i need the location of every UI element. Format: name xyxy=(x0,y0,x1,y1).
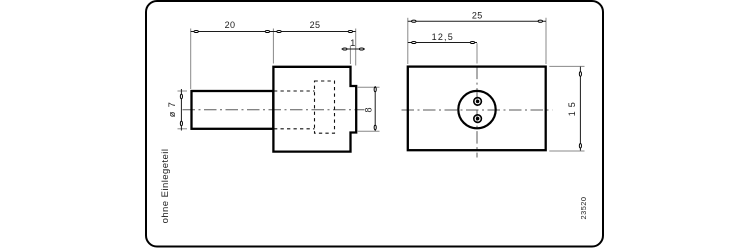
extension line left of dim 1 xyxy=(349,46,351,65)
extension line between dims 20 and 25 xyxy=(272,29,274,64)
hole top ring xyxy=(474,98,482,106)
dimension line 20/25 xyxy=(191,31,356,33)
tick dia7 top xyxy=(180,94,182,98)
dimension line 25 front view xyxy=(408,20,546,22)
dimension line dia7 xyxy=(180,89,182,131)
extension tick dia7 bottom xyxy=(178,128,188,130)
svg-text:8: 8 xyxy=(363,107,373,112)
shaft outline side view xyxy=(192,91,274,129)
extension line left of dim 20 xyxy=(190,29,192,90)
centerline side view xyxy=(183,109,365,111)
bore circle front view xyxy=(458,91,495,128)
extension line dim 12,5 down xyxy=(476,43,478,63)
extension line right front view xyxy=(545,18,547,64)
svg-text:20: 20 xyxy=(225,20,236,30)
tick dim 25 front left xyxy=(412,20,416,22)
tick dim 25 front right xyxy=(538,20,542,22)
extension line dim 15 bottom xyxy=(549,150,584,152)
hole bottom center dot xyxy=(476,117,480,121)
hole top center dot xyxy=(476,100,480,104)
hidden line bore top xyxy=(274,90,315,92)
tick dia7 bottom xyxy=(180,121,182,125)
svg-text:ohne Einlegeteil: ohne Einlegeteil xyxy=(160,149,171,224)
hole bottom ring xyxy=(474,115,482,123)
tick dim 12,5 right xyxy=(470,41,474,43)
extension line dim 8 top xyxy=(357,86,380,88)
dimension line 15 xyxy=(579,67,581,151)
dimension line 1 xyxy=(342,48,366,50)
extension tick dia7 top xyxy=(178,90,188,92)
extension line dim 15 top xyxy=(549,65,584,67)
tick dim 1 right xyxy=(359,48,363,50)
svg-text:12,5: 12,5 xyxy=(432,32,454,42)
svg-text:1: 1 xyxy=(350,38,355,48)
svg-text:23520: 23520 xyxy=(579,196,588,219)
dimension line 8 xyxy=(374,86,376,131)
tick dim 8 top xyxy=(374,87,376,91)
hidden line bore bottom xyxy=(274,128,315,130)
centerline horizontal front view xyxy=(402,109,553,111)
svg-text:15: 15 xyxy=(567,98,577,116)
body block outline side view xyxy=(273,67,356,152)
extension line left front view xyxy=(407,18,409,64)
tick dim 8 bottom xyxy=(374,125,376,129)
centerline vertical front view xyxy=(476,67,478,158)
tick dim 25 right xyxy=(348,30,352,32)
tick dim 1 left xyxy=(343,48,347,50)
tick dim 15 bottom xyxy=(579,144,581,148)
extension line dim 8 bottom xyxy=(357,130,380,132)
tick dim 20 right xyxy=(265,30,269,32)
svg-text:25: 25 xyxy=(310,20,321,30)
body block outline front view xyxy=(408,67,546,151)
tick dim 20 left xyxy=(194,30,198,32)
tick dim 15 top xyxy=(579,72,581,76)
extension line right of dim 25 xyxy=(355,29,357,66)
drawing frame xyxy=(146,1,603,247)
tick dim 12,5 left xyxy=(412,41,416,43)
hidden cavity rectangle xyxy=(315,81,335,133)
svg-text:ø7: ø7 xyxy=(167,98,177,117)
svg-text:25: 25 xyxy=(472,10,483,20)
tick dim 25 left xyxy=(277,30,281,32)
dimension line 12,5 xyxy=(408,42,477,44)
